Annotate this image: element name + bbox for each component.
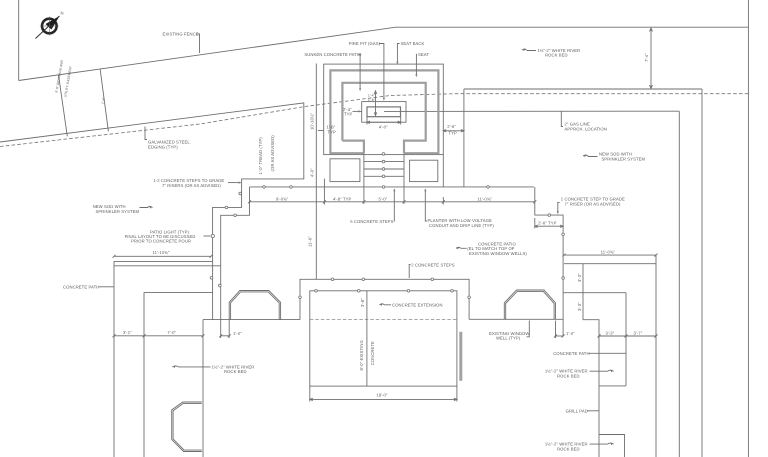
label 1/2"-2" WHITE RIVER ROCK BED top	[522, 48, 580, 58]
patio east edge below rect	[442, 155, 444, 187]
label SEAT BACK	[396, 41, 424, 64]
svg-text:18'-0": 18'-0"	[376, 393, 388, 398]
house top lights	[315, 290, 454, 293]
svg-text:APPROX. LOCATION: APPROX. LOCATION	[565, 127, 607, 132]
svg-text:ROCK BED: ROCK BED	[545, 53, 568, 58]
seat rectangle	[362, 102, 406, 123]
gas line horizontal from fire pit	[384, 110, 679, 112]
seat back thick outline	[342, 83, 425, 153]
svg-text:3'-3": 3'-3"	[606, 330, 615, 335]
dimension 4'-0" fire pit width	[367, 117, 401, 130]
label CONCRETE PATH left	[63, 284, 114, 289]
fire pit rectangle	[367, 107, 401, 117]
svg-text:CONDUIT AND DRIP LINE (TYP): CONDUIT AND DRIP LINE (TYP)	[429, 223, 494, 228]
bottom left rock bed octagon	[172, 402, 202, 452]
svg-text:(OR AS ADVISED): (OR AS ADVISED)	[270, 135, 275, 172]
svg-text:ROCK BED: ROCK BED	[557, 373, 580, 378]
rock bed edge vertical x679	[678, 111, 680, 457]
north arrow compass	[36, 11, 64, 39]
sod edge vertical x463.9	[463, 89, 465, 187]
patio step lights	[382, 153, 385, 189]
east step lights	[548, 214, 564, 280]
band bottom lights	[263, 186, 490, 189]
label EXISTING FENCE	[163, 32, 200, 54]
dimension 2'-6" TYP east	[535, 218, 563, 229]
svg-text:CONCRETE PATH: CONCRETE PATH	[63, 284, 99, 289]
east path middle line	[563, 292, 626, 294]
left planter box	[330, 159, 360, 182]
svg-text:TYP: TYP	[328, 129, 337, 134]
dimension 11'-10 5/8"	[113, 250, 213, 258]
svg-text:4'-0": 4'-0"	[310, 168, 315, 177]
south base line east	[469, 318, 563, 320]
dimension 2'-4" TYP with arrow to seat	[343, 107, 362, 117]
svg-text:PRIOR TO CONCRETE POUR: PRIOR TO CONCRETE POUR	[131, 239, 191, 244]
7'-4" easement dimension	[100, 70, 108, 132]
svg-text:SPRINKLER SYSTEM: SPRINKLER SYSTEM	[602, 157, 646, 162]
svg-text:EXISTING WINDOW WELLS): EXISTING WINDOW WELLS)	[469, 251, 527, 256]
east rock bed vertical x626	[625, 293, 627, 386]
svg-text:CONCRETE PATH: CONCRETE PATH	[553, 351, 589, 356]
west verticals	[113, 261, 115, 457]
dimension 7'-4" top right	[644, 28, 653, 89]
svg-text:3'-7": 3'-7"	[634, 330, 643, 335]
south base line west	[203, 319, 300, 321]
west stair outer line	[213, 179, 305, 320]
stair lights	[210, 192, 241, 287]
label 1 CONCRETE STEP TO GRADE	[557, 196, 625, 214]
svg-text:7'-0": 7'-0"	[167, 330, 176, 335]
svg-text:WELL (TYP): WELL (TYP)	[496, 336, 521, 341]
svg-text:4'-8" TYP: 4'-8" TYP	[333, 196, 351, 201]
label white river rock bed right 1	[545, 369, 614, 379]
sunken patio wall thick rectangle	[330, 70, 438, 153]
svg-text:1'-0": 1'-0"	[566, 331, 575, 336]
label PATIO LIGHT	[125, 229, 215, 243]
svg-text:FIRE PIT (GAS): FIRE PIT (GAS)	[349, 41, 381, 46]
svg-text:2 CONCRETE STEPS: 2 CONCRETE STEPS	[411, 263, 454, 268]
svg-text:5 CONCRETE STEPS: 5 CONCRETE STEPS	[350, 219, 393, 224]
svg-text:4'-0": 4'-0"	[379, 124, 388, 129]
label NEW SOD WITH SPRINKLER SYSTEM left	[93, 204, 153, 214]
fire pit internal dimension	[368, 91, 377, 116]
svg-text:ROCK BED: ROCK BED	[224, 369, 247, 374]
svg-text:TYP: TYP	[344, 112, 353, 117]
east path west edge x583	[577, 264, 583, 320]
house center divider	[366, 291, 368, 386]
patio entry steps	[364, 153, 404, 204]
svg-text:CONCRETE: CONCRETE	[370, 341, 375, 365]
svg-text:7'-4": 7'-4"	[644, 53, 649, 62]
svg-text:1'-0": 1'-0"	[233, 331, 242, 336]
label SUNKEN CONCRETE PATIO	[304, 52, 362, 91]
NE sod boundary horizontal	[464, 88, 702, 90]
sunken patio outer rectangle	[324, 64, 444, 155]
easement dimension line	[54, 59, 72, 136]
svg-text:7" RISERS (OR AS ADVISED): 7" RISERS (OR AS ADVISED)	[162, 183, 221, 188]
svg-text:N: N	[61, 11, 64, 16]
rock bed notch bottom	[599, 385, 626, 387]
dimension row y=202	[248, 179, 536, 205]
dimension 2'-6" TYP patio east	[443, 124, 464, 135]
label 2 CONCRETE STEPS	[409, 263, 455, 279]
svg-text:SPRINKLER SYSTEM: SPRINKLER SYSTEM	[96, 209, 140, 214]
existing fence line	[19, 27, 749, 80]
svg-text:EDGING (TYP): EDGING (TYP)	[148, 145, 178, 150]
label NEW SOD WITH SPRINKLER SYSTEM right	[583, 152, 645, 162]
svg-text:2'-6" TYP: 2'-6" TYP	[538, 220, 556, 225]
east dimension 11'-0 5/8"	[563, 249, 658, 256]
label GRILL PAD	[566, 409, 599, 414]
patio west dimension vertical	[308, 64, 317, 280]
label 2" GAS LINE APPROX LOCATION	[561, 111, 607, 131]
gray door bar on house east	[459, 332, 462, 381]
label FIRE PIT (GAS)	[349, 41, 385, 101]
label PLANTER WITH LOW VOLTAGE	[424, 188, 494, 228]
svg-text:11'-0⅝": 11'-0⅝"	[478, 196, 493, 201]
label 1.5-2 white river rock bed left	[173, 365, 255, 375]
svg-text:1'-0" TREAD (TYP): 1'-0" TREAD (TYP)	[258, 137, 263, 175]
property line right vertical	[747, 0, 749, 457]
svg-text:SEAT BACK: SEAT BACK	[401, 41, 425, 46]
svg-text:3'-3": 3'-3"	[577, 273, 582, 282]
svg-text:1'-8": 1'-8"	[368, 98, 375, 102]
property/gas dashed line	[0, 94, 748, 147]
dimension 18'-0"	[310, 386, 457, 401]
svg-text:10'-10½": 10'-10½"	[310, 112, 315, 130]
svg-text:11'-0⅝": 11'-0⅝"	[601, 249, 616, 254]
label CONCRETE PATIO EL	[456, 241, 527, 256]
galvanized steel edging line	[0, 103, 304, 179]
existing house rectangle	[310, 291, 457, 386]
svg-text:GRILL PAD: GRILL PAD	[566, 409, 588, 414]
label SEAT	[415, 52, 429, 77]
svg-text:SUNKEN CONCRETE PATIO: SUNKEN CONCRETE PATIO	[304, 52, 362, 57]
svg-text:SEAT: SEAT	[418, 52, 429, 57]
rotated 8'-0" EXISTING CONCRETE	[359, 340, 375, 370]
svg-text:11'-6": 11'-6"	[308, 236, 313, 247]
right window well octagon	[504, 290, 555, 319]
east long vertical x656	[655, 255, 657, 457]
svg-text:9'-0" DRAINAGE AND: 9'-0" DRAINAGE AND	[54, 59, 64, 93]
svg-text:7'-4": 7'-4"	[101, 97, 106, 104]
lower rock bed notch	[599, 435, 625, 457]
svg-text:5'-0": 5'-0"	[379, 196, 388, 201]
label 1-2 CONCRETE STEPS TO GRADE	[153, 178, 241, 188]
house steps lights	[299, 278, 471, 299]
dashed line inside house	[310, 319, 457, 321]
label GALVANIZED STEEL EDGING	[145, 127, 190, 150]
west path inner edge	[144, 291, 213, 293]
planter band bottom line	[250, 186, 534, 188]
label EXISTING WINDOW WELL	[489, 321, 529, 341]
svg-text:1'-4": 1'-4"	[368, 94, 375, 98]
svg-text:ROCK BED: ROCK BED	[557, 446, 580, 451]
svg-text:9'-0⅝": 9'-0⅝"	[276, 196, 289, 201]
west dimension row y=336	[113, 320, 243, 338]
east dimension row y=336	[554, 321, 658, 339]
label CONCRETE EXTENSION	[380, 303, 443, 308]
east grade step	[535, 187, 563, 336]
label white river rock bed right 2	[545, 442, 614, 452]
svg-text:7" RISER (OR AS ADVISED): 7" RISER (OR AS ADVISED)	[565, 201, 622, 206]
label CONCRETE PATH right	[553, 351, 626, 356]
west path north edges	[114, 260, 213, 262]
svg-text:3'-3": 3'-3"	[577, 302, 582, 311]
west stair inner line	[221, 187, 250, 320]
dimension 1'-8" TYP patio west	[318, 124, 336, 134]
svg-text:3'-1": 3'-1"	[123, 330, 132, 335]
svg-text:11'-10⅝": 11'-10⅝"	[153, 250, 170, 255]
rotated tread note	[258, 135, 275, 175]
svg-text:EXISTING FENCE: EXISTING FENCE	[163, 32, 199, 37]
east path north edge	[564, 263, 656, 265]
svg-text:CONCRETE EXTENSION: CONCRETE EXTENSION	[392, 303, 442, 308]
house steps outline	[300, 279, 469, 319]
svg-text:3'-8": 3'-8"	[360, 298, 365, 307]
property line left vertical	[18, 0, 20, 81]
right planter box	[410, 160, 438, 181]
left window well octagon	[229, 291, 280, 320]
svg-text:UTILITY EASEMENT: UTILITY EASEMENT	[63, 66, 72, 98]
svg-text:2'-6": 2'-6"	[447, 124, 456, 129]
svg-text:8'-0" EXISTING: 8'-0" EXISTING	[359, 340, 364, 370]
grill pad corner	[583, 320, 599, 457]
label 5 CONCRETE STEPS	[350, 188, 395, 224]
NE boundary vertical x702	[701, 89, 703, 457]
